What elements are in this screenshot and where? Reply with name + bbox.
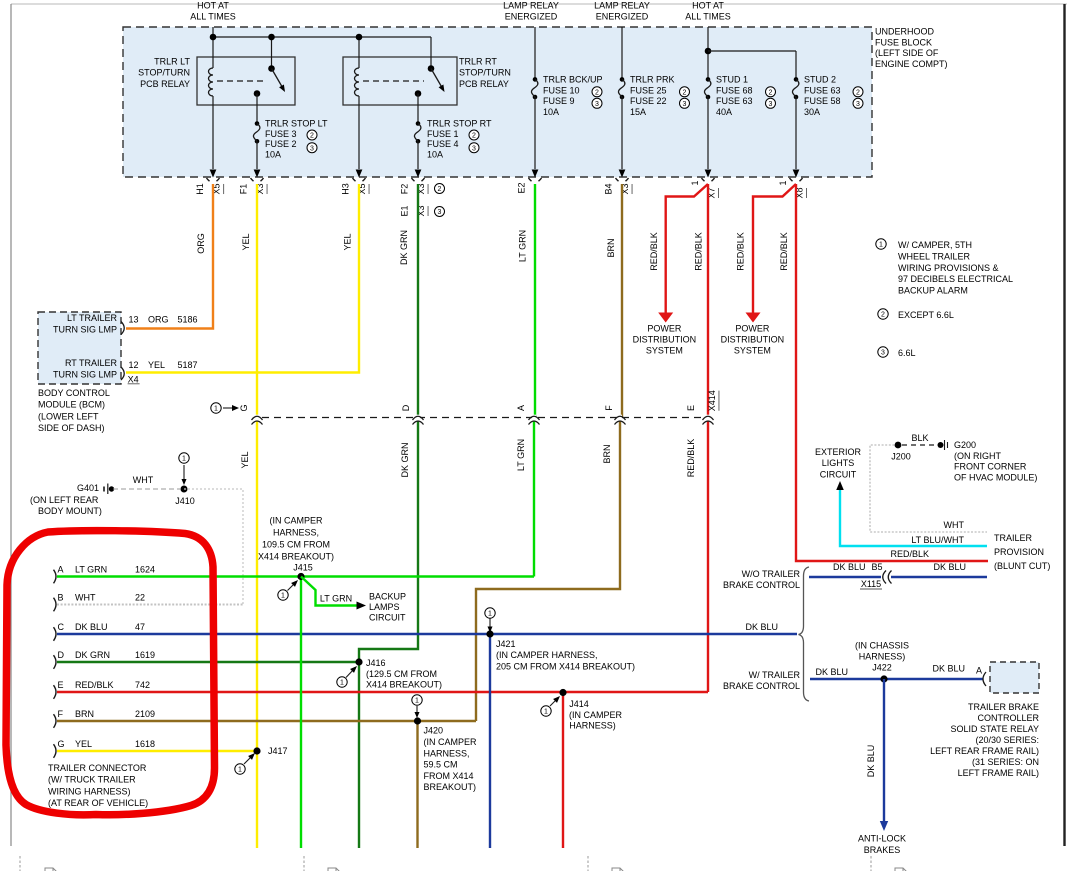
svg-text:1: 1	[544, 709, 548, 716]
svg-text:742: 742	[135, 680, 150, 690]
svg-text:DISTRIBUTION: DISTRIBUTION	[721, 335, 785, 345]
svg-text:TRAILER CONNECTOR: TRAILER CONNECTOR	[48, 763, 147, 773]
svg-text:WHT: WHT	[133, 475, 154, 485]
svg-text:2109: 2109	[135, 709, 155, 719]
svg-text:3: 3	[856, 101, 860, 108]
svg-text:SIDE OF DASH): SIDE OF DASH)	[38, 423, 105, 433]
svg-text:HARNESS): HARNESS)	[569, 720, 616, 730]
svg-text:RED/BLK: RED/BLK	[779, 232, 789, 271]
svg-text:109.5 CM FROM: 109.5 CM FROM	[262, 540, 330, 550]
svg-text:(IN CAMPER: (IN CAMPER	[269, 516, 323, 526]
svg-text:POWER: POWER	[735, 324, 770, 334]
svg-text:YEL: YEL	[75, 739, 92, 749]
svg-text:YEL: YEL	[240, 451, 250, 468]
svg-text:FUSE 63: FUSE 63	[804, 85, 841, 95]
svg-text:PROVISION: PROVISION	[994, 547, 1044, 557]
svg-text:BREAKOUT): BREAKOUT)	[424, 782, 477, 792]
svg-text:2: 2	[856, 89, 860, 96]
svg-text:1624: 1624	[135, 564, 155, 574]
svg-text:TRLR RT: TRLR RT	[459, 56, 497, 66]
svg-text:OF HVAC MODULE): OF HVAC MODULE)	[954, 472, 1037, 482]
svg-text:1619: 1619	[135, 650, 155, 660]
svg-text:H3: H3	[341, 183, 351, 195]
svg-text:2: 2	[595, 89, 599, 96]
svg-text:TRLR LT: TRLR LT	[154, 56, 190, 66]
svg-text:LT TRAILER: LT TRAILER	[67, 313, 118, 323]
svg-text:TRLR STOP RT: TRLR STOP RT	[427, 119, 492, 129]
svg-text:D: D	[401, 404, 411, 411]
svg-text:DK GRN: DK GRN	[400, 442, 410, 477]
svg-text:DK GRN: DK GRN	[399, 230, 409, 265]
svg-text:ORG: ORG	[148, 315, 169, 325]
svg-text:LEFT FRAME RAIL): LEFT FRAME RAIL)	[958, 768, 1039, 778]
svg-text:E1: E1	[400, 205, 410, 216]
svg-text:B: B	[58, 592, 64, 602]
svg-text:(IN CAMPER: (IN CAMPER	[424, 737, 478, 747]
svg-text:W/O TRAILER: W/O TRAILER	[742, 569, 801, 579]
svg-text:TRAILER BRAKE: TRAILER BRAKE	[968, 702, 1039, 712]
svg-text:J417: J417	[268, 746, 288, 756]
svg-text:J200: J200	[891, 452, 911, 462]
svg-text:F2: F2	[400, 184, 410, 195]
svg-text:TRLR BCK/UP: TRLR BCK/UP	[543, 75, 603, 85]
svg-text:3: 3	[769, 101, 773, 108]
svg-text:FUSE 4: FUSE 4	[427, 139, 459, 149]
svg-text:STOP/TURN: STOP/TURN	[138, 68, 190, 78]
svg-text:FUSE 58: FUSE 58	[804, 96, 841, 106]
svg-text:STUD 1: STUD 1	[716, 75, 748, 85]
svg-text:13: 13	[129, 315, 139, 325]
svg-text:12: 12	[129, 360, 139, 370]
svg-text:10A: 10A	[427, 149, 443, 159]
svg-text:DISTRIBUTION: DISTRIBUTION	[633, 335, 697, 345]
svg-text:J414: J414	[569, 699, 589, 709]
svg-text:G: G	[58, 739, 65, 749]
svg-text:HOT AT: HOT AT	[692, 1, 724, 11]
svg-text:BRAKE CONTROL: BRAKE CONTROL	[723, 681, 800, 691]
svg-text:W/ CAMPER, 5TH: W/ CAMPER, 5TH	[898, 240, 972, 250]
svg-text:(ON LEFT REAR: (ON LEFT REAR	[30, 495, 99, 505]
svg-text:FUSE 68: FUSE 68	[716, 85, 753, 95]
svg-text:C: C	[58, 622, 65, 632]
svg-text:(129.5 CM FROM: (129.5 CM FROM	[366, 669, 437, 679]
svg-text:2: 2	[881, 312, 885, 319]
svg-text:6.6L: 6.6L	[898, 348, 916, 358]
svg-text:2: 2	[769, 89, 773, 96]
svg-text:FUSE 2: FUSE 2	[265, 139, 297, 149]
svg-text:LT GRN: LT GRN	[518, 230, 528, 262]
svg-text:10A: 10A	[543, 107, 559, 117]
svg-text:TRAILER: TRAILER	[994, 533, 1033, 543]
svg-text:1: 1	[214, 406, 218, 413]
svg-text:ANTI-LOCK: ANTI-LOCK	[858, 834, 906, 844]
svg-text:1: 1	[488, 611, 492, 618]
svg-text:3: 3	[438, 209, 442, 216]
svg-text:F: F	[58, 709, 64, 719]
svg-text:DK BLU: DK BLU	[745, 622, 778, 632]
svg-text:SYSTEM: SYSTEM	[646, 345, 683, 355]
svg-text:RED/BLK: RED/BLK	[694, 232, 704, 271]
svg-text:5186: 5186	[178, 315, 198, 325]
svg-text:1: 1	[238, 767, 242, 774]
svg-text:(BLUNT CUT): (BLUNT CUT)	[994, 561, 1050, 571]
svg-text:J421: J421	[496, 639, 516, 649]
svg-text:STOP/TURN: STOP/TURN	[459, 68, 511, 78]
svg-text:YEL: YEL	[241, 233, 251, 250]
svg-text:LAMPS: LAMPS	[369, 602, 400, 612]
svg-text:RED/BLK: RED/BLK	[890, 549, 929, 559]
svg-text:HARNESS): HARNESS)	[859, 652, 906, 662]
svg-text:A: A	[516, 405, 526, 411]
svg-text:STUD 2: STUD 2	[804, 75, 836, 85]
svg-text:BODY CONTROL: BODY CONTROL	[38, 388, 110, 398]
svg-text:30A: 30A	[804, 107, 820, 117]
svg-text:TRLR PRK: TRLR PRK	[630, 75, 675, 85]
svg-text:F: F	[604, 405, 614, 411]
svg-text:LAMP RELAY: LAMP RELAY	[594, 1, 650, 11]
svg-text:(LOWER LEFT: (LOWER LEFT	[38, 411, 99, 421]
svg-text:FROM X414: FROM X414	[424, 771, 474, 781]
svg-text:3: 3	[683, 101, 687, 108]
svg-text:J415: J415	[293, 563, 313, 573]
svg-text:BACKUP: BACKUP	[369, 592, 406, 602]
svg-text:(W/ TRUCK TRAILER: (W/ TRUCK TRAILER	[48, 775, 136, 785]
svg-text:CONTROLLER: CONTROLLER	[977, 713, 1039, 723]
svg-text:WHT: WHT	[75, 592, 96, 602]
svg-text:DK GRN: DK GRN	[75, 650, 110, 660]
svg-text:DK BLU: DK BLU	[75, 622, 108, 632]
svg-text:WHT: WHT	[944, 520, 965, 530]
svg-text:FUSE 9: FUSE 9	[543, 96, 575, 106]
svg-text:POWER: POWER	[647, 324, 682, 334]
svg-text:EXCEPT 6.6L: EXCEPT 6.6L	[898, 310, 954, 320]
svg-text:E: E	[686, 405, 696, 411]
svg-text:W/ TRAILER: W/ TRAILER	[749, 670, 801, 680]
svg-text:2: 2	[472, 133, 476, 140]
svg-text:2: 2	[683, 89, 687, 96]
svg-text:E2: E2	[517, 182, 527, 193]
svg-text:HARNESS,: HARNESS,	[273, 528, 319, 538]
svg-text:BODY MOUNT): BODY MOUNT)	[38, 506, 102, 516]
svg-text:(LEFT SIDE OF: (LEFT SIDE OF	[875, 48, 939, 58]
svg-text:97 DECIBELS ELECTRICAL: 97 DECIBELS ELECTRICAL	[898, 274, 1013, 284]
svg-text:3: 3	[472, 145, 476, 152]
svg-text:UNDERHOOD: UNDERHOOD	[875, 27, 935, 37]
svg-text:TURN SIG LMP: TURN SIG LMP	[53, 370, 117, 380]
svg-text:FUSE 22: FUSE 22	[630, 96, 667, 106]
svg-text:(31 SERIES: ON: (31 SERIES: ON	[972, 757, 1039, 767]
svg-text:1: 1	[879, 242, 883, 249]
svg-text:ENERGIZED: ENERGIZED	[505, 12, 558, 22]
svg-text:BRAKE CONTROL: BRAKE CONTROL	[723, 580, 800, 590]
svg-text:G401: G401	[77, 483, 99, 493]
svg-text:ORG: ORG	[196, 233, 206, 254]
svg-text:CIRCUIT: CIRCUIT	[820, 470, 857, 480]
svg-text:(20/30 SERIES:: (20/30 SERIES:	[975, 735, 1039, 745]
svg-text:59.5 CM: 59.5 CM	[424, 760, 458, 770]
svg-text:X414: X414	[707, 390, 717, 411]
svg-text:3: 3	[595, 101, 599, 108]
svg-text:X414 BREAKOUT): X414 BREAKOUT)	[366, 680, 442, 690]
svg-text:FUSE BLOCK: FUSE BLOCK	[875, 37, 932, 47]
svg-text:RED/BLK: RED/BLK	[75, 680, 114, 690]
svg-text:LT GRN: LT GRN	[75, 564, 107, 574]
svg-text:FRONT CORNER: FRONT CORNER	[954, 462, 1027, 472]
svg-text:A: A	[58, 564, 64, 574]
svg-text:2: 2	[310, 133, 314, 140]
svg-text:HARNESS,: HARNESS,	[424, 748, 470, 758]
svg-text:1: 1	[182, 456, 186, 463]
svg-text:FUSE 10: FUSE 10	[543, 85, 580, 95]
svg-text:LIGHTS: LIGHTS	[822, 458, 855, 468]
svg-text:40A: 40A	[716, 107, 732, 117]
svg-text:LT BLU/WHT: LT BLU/WHT	[911, 535, 964, 545]
svg-text:YEL: YEL	[343, 233, 353, 250]
svg-text:A: A	[976, 666, 982, 676]
svg-text:LEFT REAR FRAME RAIL): LEFT REAR FRAME RAIL)	[930, 746, 1039, 756]
svg-text:PCB RELAY: PCB RELAY	[140, 79, 190, 89]
svg-text:D: D	[58, 650, 65, 660]
svg-text:RED/BLK: RED/BLK	[686, 439, 696, 478]
svg-text:FUSE 25: FUSE 25	[630, 85, 667, 95]
svg-text:ENGINE COMPT): ENGINE COMPT)	[875, 59, 948, 69]
svg-text:LT GRN: LT GRN	[516, 439, 526, 471]
svg-text:1: 1	[690, 180, 700, 185]
svg-text:F1: F1	[239, 184, 249, 195]
svg-text:J422: J422	[872, 663, 892, 673]
svg-text:HOT AT: HOT AT	[197, 1, 229, 11]
svg-text:TRLR STOP LT: TRLR STOP LT	[265, 119, 328, 129]
svg-text:FUSE 3: FUSE 3	[265, 129, 297, 139]
svg-text:LT GRN: LT GRN	[320, 594, 352, 604]
svg-text:DK BLU: DK BLU	[866, 745, 876, 778]
svg-text:J420: J420	[424, 726, 444, 736]
svg-text:BRN: BRN	[75, 709, 94, 719]
svg-text:1: 1	[281, 593, 285, 600]
svg-text:RT TRAILER: RT TRAILER	[65, 358, 118, 368]
svg-text:(IN CAMPER HARNESS,: (IN CAMPER HARNESS,	[496, 650, 598, 660]
svg-text:ALL TIMES: ALL TIMES	[685, 12, 731, 22]
svg-text:BLK: BLK	[911, 433, 928, 443]
svg-text:RED/BLK: RED/BLK	[736, 232, 746, 271]
svg-text:(ON RIGHT: (ON RIGHT	[954, 451, 1001, 461]
svg-text:DK BLU: DK BLU	[933, 562, 966, 572]
svg-text:5187: 5187	[178, 360, 198, 370]
svg-text:G: G	[239, 404, 249, 411]
svg-text:1: 1	[340, 680, 344, 687]
svg-text:1: 1	[778, 180, 788, 185]
svg-text:X4: X4	[128, 375, 139, 385]
svg-text:(IN CAMPER: (IN CAMPER	[569, 710, 623, 720]
svg-text:H1: H1	[195, 183, 205, 195]
svg-text:B4: B4	[604, 183, 614, 194]
svg-text:X115: X115	[861, 579, 881, 589]
svg-text:WIRING PROVISIONS &: WIRING PROVISIONS &	[898, 263, 999, 273]
svg-text:BRN: BRN	[606, 238, 616, 257]
svg-text:(IN CHASSIS: (IN CHASSIS	[855, 641, 909, 651]
svg-text:E: E	[58, 680, 64, 690]
svg-text:2: 2	[438, 186, 442, 193]
svg-text:LAMP RELAY: LAMP RELAY	[503, 1, 559, 11]
svg-text:FUSE 1: FUSE 1	[427, 129, 459, 139]
svg-text:DK BLU: DK BLU	[833, 562, 866, 572]
svg-text:MODULE (BCM): MODULE (BCM)	[38, 400, 105, 410]
svg-text:X414 BREAKOUT): X414 BREAKOUT)	[258, 552, 334, 562]
svg-text:DK BLU: DK BLU	[932, 664, 965, 674]
svg-text:15A: 15A	[630, 107, 646, 117]
svg-text:10A: 10A	[265, 149, 281, 159]
svg-text:EXTERIOR: EXTERIOR	[815, 447, 862, 457]
svg-text:PCB RELAY: PCB RELAY	[459, 79, 509, 89]
svg-text:22: 22	[135, 592, 145, 602]
svg-text:ALL TIMES: ALL TIMES	[190, 12, 236, 22]
svg-text:SYSTEM: SYSTEM	[734, 345, 771, 355]
svg-text:J416: J416	[366, 658, 386, 668]
svg-text:BACKUP ALARM: BACKUP ALARM	[898, 286, 968, 296]
svg-text:WIRING HARNESS): WIRING HARNESS)	[48, 786, 131, 796]
svg-text:3: 3	[881, 350, 885, 357]
svg-text:G200: G200	[954, 440, 976, 450]
svg-text:B5: B5	[872, 562, 883, 572]
svg-text:1: 1	[415, 698, 419, 705]
svg-text:SOLID STATE RELAY: SOLID STATE RELAY	[950, 724, 1039, 734]
svg-text:3: 3	[310, 145, 314, 152]
svg-text:ENERGIZED: ENERGIZED	[596, 12, 649, 22]
svg-text:FUSE 63: FUSE 63	[716, 96, 753, 106]
svg-text:47: 47	[135, 622, 145, 632]
svg-text:RED/BLK: RED/BLK	[649, 232, 659, 271]
svg-text:BRAKES: BRAKES	[864, 845, 901, 855]
svg-text:BRN: BRN	[602, 444, 612, 463]
svg-text:1618: 1618	[135, 739, 155, 749]
svg-text:YEL: YEL	[148, 360, 165, 370]
svg-text:(AT REAR OF VEHICLE): (AT REAR OF VEHICLE)	[48, 798, 148, 808]
svg-text:J410: J410	[175, 496, 195, 506]
svg-text:TURN SIG LMP: TURN SIG LMP	[53, 325, 117, 335]
svg-text:CIRCUIT: CIRCUIT	[369, 613, 406, 623]
svg-text:205 CM FROM X414 BREAKOUT): 205 CM FROM X414 BREAKOUT)	[496, 661, 635, 671]
svg-text:WHEEL TRAILER: WHEEL TRAILER	[898, 251, 971, 261]
svg-text:DK BLU: DK BLU	[815, 667, 848, 677]
